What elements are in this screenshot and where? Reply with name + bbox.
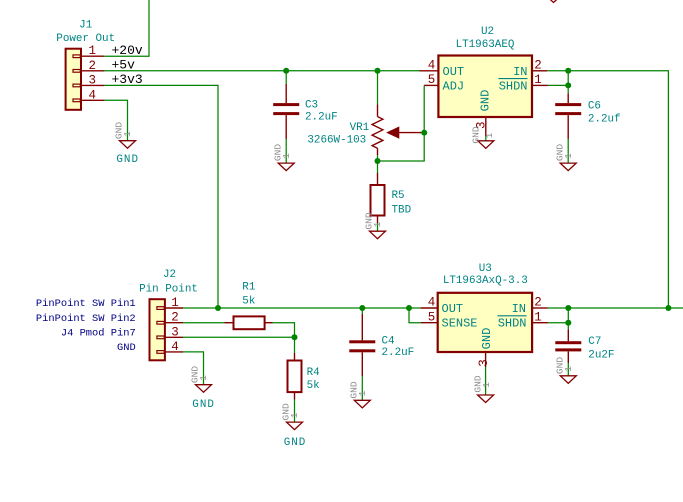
svg-text:OUT: OUT — [442, 302, 464, 316]
svg-text:R5: R5 — [392, 190, 405, 202]
svg-text:3: 3 — [89, 73, 97, 87]
svg-text:GND: GND — [117, 342, 136, 354]
junction U2 SHDN / C6 — [565, 82, 571, 88]
svg-text:Pin Point: Pin Point — [139, 283, 198, 295]
ground C4 — [348, 381, 370, 408]
svg-text:2: 2 — [534, 296, 542, 310]
capacitor C4 — [349, 314, 414, 376]
svg-text:IN: IN — [512, 302, 526, 316]
junction +3v3 / J2 pin1 — [215, 305, 221, 311]
svg-text:+20v: +20v — [112, 43, 143, 58]
wire J2 pin3 to node — [183, 336, 295, 338]
svg-text:TBD: TBD — [392, 204, 412, 216]
wire +20v from J1 pin1 up off-canvas — [104, 0, 149, 56]
svg-text:GND: GND — [192, 399, 215, 411]
junction U3 IN / C7 — [565, 305, 571, 311]
svg-text:GND: GND — [471, 126, 482, 144]
wire R1 right to pin3 node — [273, 323, 295, 338]
wire +3v3 J1 pin3 down to J2 pin1 net — [104, 85, 218, 308]
wire VR1 bottom to node — [377, 155, 379, 161]
wire C4 bottom to ground — [361, 376, 363, 400]
junction VR1 bottom / R5 — [375, 158, 381, 164]
junction VR1 / +5v — [375, 68, 381, 74]
ground C3 — [272, 144, 294, 171]
svg-text:PinPoint SW Pin2: PinPoint SW Pin2 — [36, 313, 136, 325]
svg-text:C6: C6 — [588, 101, 601, 113]
wire C6 bottom to ground — [567, 139, 569, 163]
wire U3 GND pin to ground — [485, 367, 487, 395]
junction R1 / J2 pin3 / R4 — [292, 334, 298, 340]
wire wiper to ADJ net — [420, 132, 424, 134]
wire node to R5 — [377, 161, 379, 173]
svg-text:1: 1 — [171, 296, 179, 310]
svg-text:J4 Pmod Pin7: J4 Pmod Pin7 — [61, 328, 136, 340]
wire C3 top lead — [285, 71, 287, 84]
svg-text:1: 1 — [484, 132, 495, 138]
potentiometer VR1 — [307, 105, 421, 156]
svg-text:VR1: VR1 — [350, 122, 370, 134]
wire node to R4 — [294, 337, 296, 353]
svg-text:2: 2 — [171, 311, 179, 325]
wire U3 SENSE branch — [409, 308, 421, 323]
svg-text:C4: C4 — [382, 336, 395, 348]
IC U3 LT1963AxQ-3.3 — [421, 263, 548, 367]
svg-text:3266W-103: 3266W-103 — [307, 134, 366, 146]
wire U3 SHDN to C7 — [548, 322, 568, 324]
svg-text:1: 1 — [563, 366, 574, 372]
ground C7 — [554, 357, 576, 384]
svg-text:5k: 5k — [242, 296, 255, 308]
wire U2 GND pin to ground — [485, 136, 487, 141]
svg-text:3: 3 — [477, 359, 491, 367]
svg-text:4: 4 — [428, 296, 436, 310]
wire ADJ net vertical — [378, 85, 425, 161]
wire C7 bottom to ground — [567, 363, 569, 376]
svg-text:2u2F: 2u2F — [588, 349, 614, 361]
junction SENSE branch — [406, 305, 412, 311]
svg-text:1: 1 — [122, 131, 133, 137]
svg-text:SENSE: SENSE — [442, 317, 478, 331]
svg-text:IN: IN — [513, 65, 527, 79]
svg-text:C7: C7 — [588, 336, 601, 348]
svg-text:3: 3 — [171, 325, 179, 339]
wire C6 vertical from IN node — [567, 71, 569, 94]
svg-text:R4: R4 — [307, 367, 320, 379]
junction C3 / +5v — [283, 68, 289, 74]
junction ADJ / wiper — [421, 130, 427, 136]
svg-text:SHDN: SHDN — [499, 79, 528, 93]
svg-text:GND: GND — [284, 437, 307, 449]
wire C3 bottom to ground — [285, 139, 287, 163]
svg-text:Power Out: Power Out — [56, 33, 115, 45]
svg-text:1: 1 — [563, 153, 574, 159]
ground U3 pin3 — [472, 375, 493, 402]
svg-text:1: 1 — [89, 44, 97, 58]
svg-text:1: 1 — [289, 412, 300, 418]
capacitor C3 — [273, 84, 337, 139]
ground C6 — [554, 144, 576, 171]
wire J2 pin4 to ground — [183, 352, 204, 385]
svg-text:J2: J2 — [163, 269, 176, 281]
wire VR1 top branch — [377, 71, 379, 105]
connector J2 — [150, 299, 184, 360]
svg-text:PinPoint SW Pin1: PinPoint SW Pin1 — [36, 298, 136, 310]
svg-text:GND: GND — [116, 154, 139, 166]
ground R5 — [364, 212, 386, 239]
svg-text:4: 4 — [171, 340, 179, 354]
svg-text:2.2uF: 2.2uF — [382, 347, 415, 359]
junction C4 / U3 OUT net — [359, 305, 365, 311]
svg-text:2: 2 — [89, 59, 97, 73]
capacitor C6 — [555, 94, 620, 140]
ground U2 pin3 — [471, 126, 495, 148]
svg-text:+3v3: +3v3 — [112, 72, 143, 87]
svg-text:2.2uf: 2.2uf — [588, 113, 621, 125]
svg-text:2: 2 — [534, 59, 542, 73]
wire C4 top lead — [361, 308, 363, 314]
ground cut off at top — [546, 0, 562, 3]
junction U2 IN / C6 — [565, 68, 571, 74]
wire U2 SHDN to C6 — [548, 84, 568, 86]
svg-text:LT1963AxQ-3.3: LT1963AxQ-3.3 — [443, 275, 528, 287]
junction right rail / U3 IN net — [665, 305, 671, 311]
wire J2 pin1 net to U3 OUT — [183, 307, 421, 309]
svg-text:5: 5 — [428, 73, 436, 87]
U3 SHDN overline — [498, 315, 527, 317]
svg-text:1: 1 — [534, 310, 542, 324]
svg-text:LT1963AEQ: LT1963AEQ — [456, 39, 515, 51]
wire R4 bottom to ground — [294, 400, 296, 423]
connector J1 — [66, 49, 105, 110]
svg-text:1: 1 — [481, 382, 492, 388]
junction U3 SHDN / C7 — [565, 320, 571, 326]
svg-text:U3: U3 — [479, 263, 492, 275]
svg-text:OUT: OUT — [443, 65, 465, 79]
svg-text:+5v: +5v — [112, 58, 136, 73]
svg-text:5k: 5k — [307, 380, 320, 392]
wire J2 pin2 to R1 — [183, 322, 225, 324]
svg-text:1: 1 — [281, 153, 292, 159]
svg-text:1: 1 — [198, 375, 209, 381]
wire +5v rail J1 pin2 to U2 OUT — [104, 70, 420, 72]
svg-text:ADJ: ADJ — [443, 79, 465, 93]
svg-text:SHDN: SHDN — [498, 317, 527, 331]
svg-text:R1: R1 — [242, 281, 256, 293]
resistor R4 — [288, 353, 320, 400]
resistor R1 — [225, 281, 273, 329]
svg-text:J1: J1 — [79, 19, 93, 31]
ground J2 — [189, 366, 215, 411]
svg-text:1: 1 — [372, 221, 383, 227]
wire U3 IN net to right edge — [548, 307, 683, 309]
ground R4 — [281, 403, 307, 449]
U2 SHDN overline — [499, 78, 528, 80]
svg-text:4: 4 — [428, 59, 436, 73]
resistor R5 — [371, 173, 412, 223]
wire C7 vertical from IN net — [567, 308, 569, 330]
IC U2 LT1963AEQ — [420, 26, 548, 136]
svg-text:GND: GND — [480, 328, 494, 350]
svg-text:1: 1 — [357, 390, 368, 396]
wire U2 IN net to right rail down to U3 IN net — [547, 71, 668, 308]
svg-text:GND: GND — [478, 90, 492, 112]
svg-text:2.2uF: 2.2uF — [305, 111, 338, 123]
ground J1 — [113, 122, 139, 166]
capacitor C7 — [555, 330, 614, 364]
svg-text:4: 4 — [89, 88, 97, 102]
wire R5 bottom to ground — [377, 223, 379, 231]
svg-text:5: 5 — [428, 310, 436, 324]
svg-text:U2: U2 — [481, 26, 494, 38]
svg-text:1: 1 — [534, 73, 542, 87]
wire J1 pin4 to ground — [104, 100, 128, 140]
svg-text:C3: C3 — [305, 100, 318, 112]
